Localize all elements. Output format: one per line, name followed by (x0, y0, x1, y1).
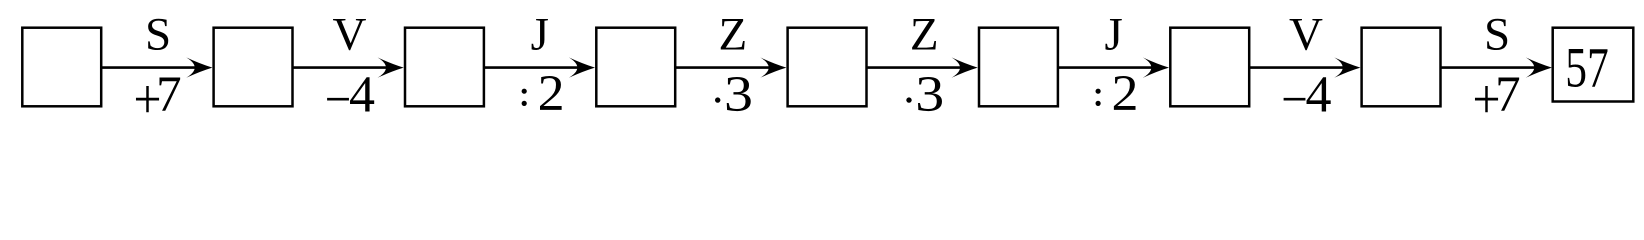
arrowhead 3 (569, 57, 595, 77)
operation label .3 (715, 97, 720, 102)
svg-text:7: 7 (1495, 67, 1521, 123)
box 9 (result box) (1553, 28, 1634, 102)
svg-text:J: J (1105, 9, 1123, 61)
svg-text:−: − (1281, 72, 1308, 125)
wire arrow 6 (1058, 66, 1154, 69)
diagram: arithmetic operator chain with 9 boxes (0, 0, 1644, 125)
wire arrow 8 (1441, 66, 1537, 69)
svg-text:57: 57 (1565, 37, 1609, 100)
svg-text:4: 4 (1306, 67, 1332, 124)
wire arrow 7 (1249, 66, 1345, 69)
wire arrow 4 (675, 66, 771, 69)
svg-text:7: 7 (156, 67, 182, 123)
box 3 (405, 28, 484, 107)
svg-text:3: 3 (724, 67, 753, 123)
box 5 (788, 28, 867, 107)
arrowhead 7 (1334, 57, 1360, 77)
operation label :2 (1096, 89, 1101, 94)
svg-text:S: S (145, 9, 171, 61)
svg-text:2: 2 (1112, 66, 1139, 122)
operation label .3 (906, 97, 911, 102)
box 6 (979, 28, 1058, 107)
arrowhead 1 (186, 57, 212, 77)
svg-text:Z: Z (719, 9, 748, 61)
svg-text:2: 2 (538, 66, 565, 122)
svg-text:J: J (531, 9, 549, 61)
box 1 (22, 28, 101, 107)
box 7 (1170, 28, 1249, 107)
svg-text:V: V (1289, 9, 1323, 61)
box 4 (596, 28, 675, 107)
arrowhead 5 (952, 57, 978, 77)
arrowhead 8 (1526, 57, 1552, 77)
arrowhead 6 (1143, 57, 1169, 77)
wire arrow 3 (484, 66, 580, 69)
arrowhead 4 (760, 57, 786, 77)
svg-text:4: 4 (349, 67, 375, 124)
svg-text:V: V (333, 9, 367, 61)
wire arrow 5 (867, 66, 963, 69)
svg-text:Z: Z (910, 9, 939, 61)
svg-text:S: S (1484, 9, 1510, 61)
arrowhead 2 (378, 57, 404, 77)
wire arrow 1 (101, 66, 197, 69)
wire arrow 2 (293, 66, 389, 69)
box 2 (214, 28, 293, 107)
operation label :2 (522, 89, 527, 94)
box 8 (1362, 28, 1441, 107)
svg-text:3: 3 (915, 67, 944, 123)
svg-text:−: − (325, 72, 352, 125)
